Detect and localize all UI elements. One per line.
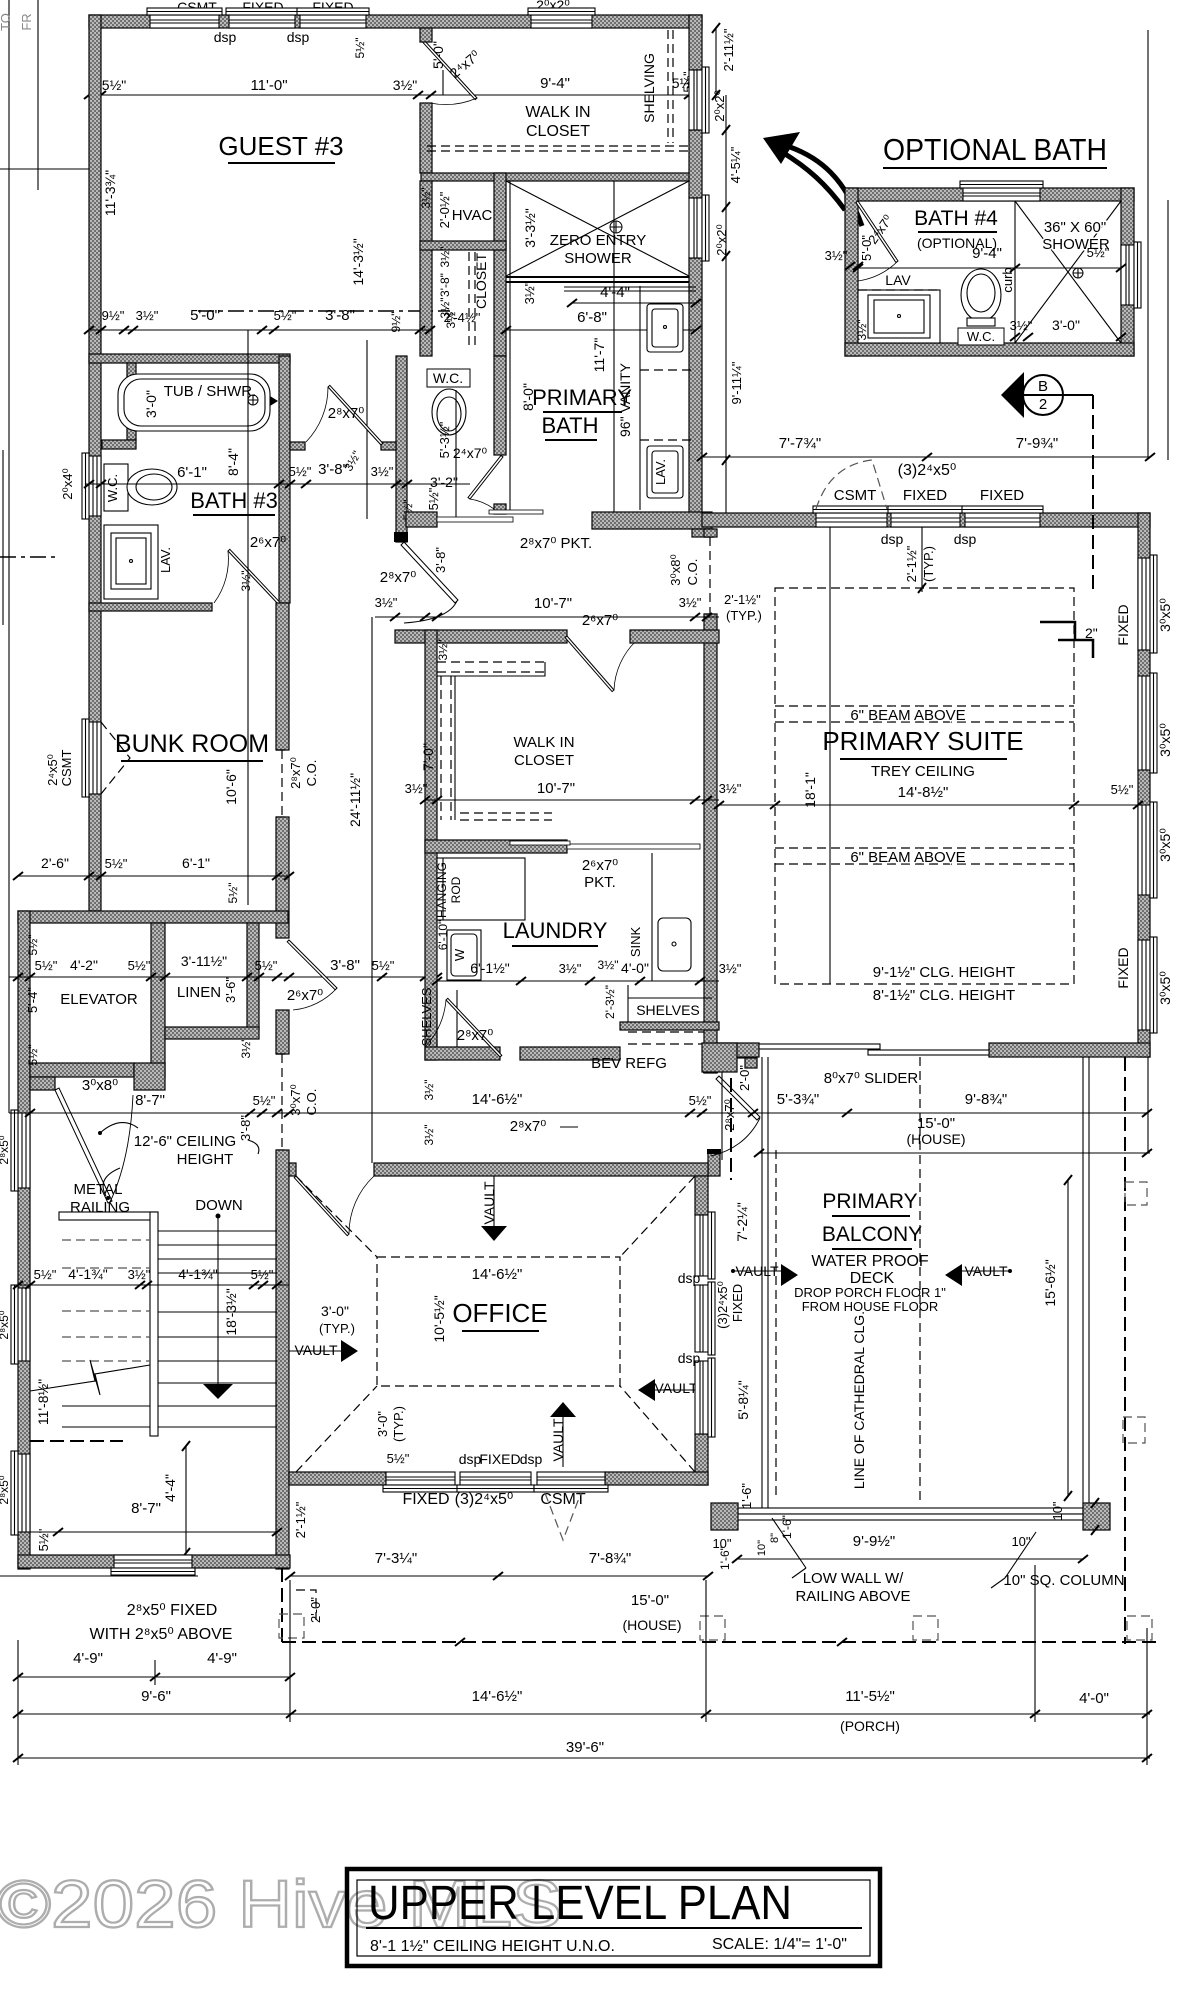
- svg-text:8'-1 1½" CEILING HEIGHT U.N.O.: 8'-1 1½" CEILING HEIGHT U.N.O.: [370, 1938, 615, 1955]
- dim chain y876: [18, 875, 289, 877]
- window 2x2 right wall upper: [689, 67, 709, 133]
- svg-text:3½": 3½": [719, 961, 742, 976]
- wc label box primary bath: [427, 369, 470, 387]
- svg-text:2'-11½": 2'-11½": [721, 28, 736, 71]
- svg-text:3½": 3½": [375, 595, 398, 610]
- closet shelf dashed top: [437, 661, 545, 663]
- wall: elevator block top: [18, 911, 288, 923]
- svg-text:CLOSET: CLOSET: [526, 123, 590, 140]
- svg-text:3⁰x8⁰: 3⁰x8⁰: [668, 554, 683, 585]
- svg-text:CLOSET: CLOSET: [514, 752, 574, 769]
- column left: [711, 1503, 738, 1530]
- svg-text:FIXED: FIXED: [903, 487, 947, 504]
- dim chain y484: [85, 483, 470, 485]
- svg-text:3½": 3½": [422, 1125, 436, 1146]
- svg-text:4'-9": 4'-9": [207, 1650, 237, 1667]
- svg-text:VAULT: VAULT: [294, 1342, 337, 1358]
- svg-text:5½": 5½": [274, 308, 297, 323]
- cased opening 3-0x8-0 C.O. dashed: [704, 537, 717, 614]
- svg-text:(TYP.): (TYP.): [726, 608, 762, 623]
- svg-text:ELEVATOR: ELEVATOR: [60, 991, 138, 1008]
- svg-text:3½": 3½": [559, 961, 582, 976]
- svg-text:3½": 3½": [136, 308, 159, 323]
- stair break line zigzag: [30, 1360, 150, 1395]
- vanity counter edge: [639, 286, 641, 510]
- svg-text:2⁶x7⁰: 2⁶x7⁰: [250, 534, 286, 551]
- svg-text:LAUNDRY: LAUNDRY: [503, 918, 608, 943]
- svg-text:10'-6": 10'-6": [223, 769, 239, 805]
- optional bath top window: [960, 181, 1043, 201]
- svg-text:B: B: [1038, 378, 1048, 395]
- window 2x2 right wall lower: [689, 195, 709, 261]
- svg-text:3½": 3½": [405, 781, 428, 796]
- svg-text:5½": 5½": [128, 958, 151, 973]
- wall: office right top cap: [708, 1151, 720, 1176]
- wall: optional bath top: [845, 188, 1134, 201]
- wall: bunk/hall right x276 mid: [276, 817, 289, 938]
- svg-text:3½": 3½": [436, 640, 450, 661]
- svg-text:FIXED: FIXED: [479, 1451, 520, 1467]
- right margin vertical line x716: [715, 28, 717, 95]
- svg-text:8'-7": 8'-7": [135, 1092, 165, 1109]
- wall: bunk/hall right x276 upper: [276, 603, 289, 750]
- svg-text:3⁰x5⁰: 3⁰x5⁰: [1157, 971, 1173, 1005]
- svg-text:3½": 3½": [825, 248, 848, 263]
- horizontal leader y169 top-left: [0, 168, 89, 170]
- svg-text:5½": 5½": [289, 464, 312, 479]
- svg-text:2'-0½": 2'-0½": [437, 191, 452, 228]
- wall: laundry bottom right / shelves nook: [520, 1047, 620, 1060]
- section marker B/2: [1001, 372, 1024, 418]
- dim 39'-6: [18, 1757, 1150, 1759]
- sill line bottom left: [0, 1575, 198, 1577]
- dashed post square bottom left: [279, 1614, 304, 1638]
- svg-text:6'-1½": 6'-1½": [470, 960, 510, 976]
- wall: office top y1163: [289, 1163, 296, 1176]
- dim 9-11.25 extension: [725, 460, 727, 513]
- svg-text:8'-1½" CLG. HEIGHT: 8'-1½" CLG. HEIGHT: [873, 987, 1015, 1004]
- svg-text:5½": 5½": [102, 77, 126, 93]
- svg-text:5'-3½": 5'-3½": [437, 421, 452, 458]
- right margin vertical line x1148 upper: [1147, 30, 1149, 457]
- door 2-8x7-0 balcony from hall: [716, 1076, 760, 1120]
- wic shelf dashed line bottom: [427, 145, 691, 147]
- dim chain y981 laundry: [437, 980, 719, 982]
- window 2x4 bath#3 in left wall: [82, 453, 101, 519]
- svg-text:FROM HOUSE FLOOR: FROM HOUSE FLOOR: [802, 1299, 939, 1314]
- wall: stair block bottom: [18, 1555, 290, 1568]
- door 2-6x7-0 closet: [565, 636, 636, 692]
- svg-text:4'-5¼": 4'-5¼": [728, 146, 743, 183]
- svg-text:3'-0": 3'-0": [143, 390, 159, 418]
- wall: linen bottom: [165, 1027, 259, 1039]
- section marker leader: [1063, 394, 1093, 396]
- svg-text:3'-8": 3'-8": [238, 1115, 253, 1141]
- right margin vertical line x1168: [1167, 200, 1169, 460]
- svg-text:TREY CEILING: TREY CEILING: [871, 763, 975, 780]
- wall: pocket wall y512 right part: [592, 512, 712, 529]
- washer box: [447, 930, 481, 980]
- svg-text:GUEST #3: GUEST #3: [218, 131, 343, 161]
- svg-text:HVAC: HVAC: [452, 207, 493, 224]
- suite corner block left: [702, 1043, 737, 1072]
- svg-text:3'-8": 3'-8": [330, 957, 360, 974]
- svg-text:2'-1½": 2'-1½": [724, 592, 761, 607]
- wall: primary suite right x1138: [1138, 513, 1150, 1057]
- wall: optional bath left: [845, 188, 858, 356]
- svg-text:dsp: dsp: [881, 531, 904, 547]
- office bottom windows: [383, 1472, 458, 1492]
- wall: hall x276 lower: [276, 1150, 289, 1569]
- svg-text:15'-6½": 15'-6½": [1042, 1259, 1058, 1306]
- svg-text:39'-6": 39'-6": [566, 1739, 604, 1756]
- shower bench double line: [564, 286, 696, 288]
- svg-text:5½": 5½": [1087, 245, 1110, 260]
- svg-text:(3)2⁴x5⁰: (3)2⁴x5⁰: [455, 1491, 514, 1508]
- dashed post square bottom mid1: [700, 1616, 725, 1640]
- vanity bath#3: [104, 525, 158, 599]
- svg-text:6'-1": 6'-1": [182, 855, 210, 871]
- zero entry shower X lines: [506, 181, 689, 276]
- dimension extension line left margin x9: [8, 0, 10, 1113]
- dim chain y977: [9, 976, 437, 978]
- wall stub left of vestibule door: [381, 442, 396, 450]
- wall: exterior left upper: [89, 15, 101, 911]
- svg-text:dsp: dsp: [954, 531, 977, 547]
- lav sink lower with label: [647, 446, 683, 498]
- office vault dashed inner rect: [377, 1257, 620, 1386]
- svg-text:2'-3½": 2'-3½": [603, 985, 617, 1019]
- svg-text:4'-4": 4'-4": [162, 1474, 178, 1502]
- svg-text:4'-4": 4'-4": [600, 284, 630, 301]
- svg-text:8'-4": 8'-4": [225, 448, 241, 476]
- shower X optional bath: [1015, 201, 1121, 343]
- title rule: [366, 1927, 862, 1929]
- dashed post square right 2: [1123, 1417, 1145, 1443]
- svg-text:7'-9¾": 7'-9¾": [1016, 435, 1058, 452]
- svg-text:7'-2¼": 7'-2¼": [734, 1202, 750, 1242]
- svg-text:(TYP.): (TYP.): [921, 546, 936, 582]
- vertical dim line x830 suite: [829, 527, 831, 984]
- svg-text:9'-9½": 9'-9½": [853, 1533, 895, 1550]
- svg-text:3'-2": 3'-2": [430, 474, 458, 490]
- svg-text:dsp: dsp: [214, 29, 237, 45]
- svg-text:18'-3½": 18'-3½": [223, 1288, 239, 1335]
- svg-text:4'-1¾": 4'-1¾": [178, 1266, 218, 1282]
- svg-text:5½": 5½": [36, 1528, 51, 1551]
- closet shelves dashed vertical: [468, 252, 470, 350]
- svg-text:(3)2⁴x5⁰: (3)2⁴x5⁰: [715, 1281, 730, 1329]
- svg-text:2⁸x7⁰ PKT.: 2⁸x7⁰ PKT.: [520, 535, 592, 552]
- svg-text:9'-6": 9'-6": [141, 1688, 171, 1705]
- wall: primary suite top y513: [702, 513, 1150, 527]
- svg-text:5'-8¼": 5'-8¼": [735, 1380, 751, 1420]
- svg-text:6'-1": 6'-1": [177, 464, 207, 481]
- svg-text:14'-6½": 14'-6½": [472, 1688, 523, 1705]
- svg-text:11'-5½": 11'-5½": [845, 1688, 895, 1705]
- svg-text:FR: FR: [19, 13, 34, 30]
- wall: closet/laundry left x425: [425, 630, 437, 1060]
- svg-text:14'-6½": 14'-6½": [472, 1266, 523, 1283]
- svg-text:2⁴x7⁰: 2⁴x7⁰: [453, 445, 488, 461]
- svg-text:2⁰x2⁰: 2⁰x2⁰: [714, 224, 729, 255]
- svg-text:1'-6": 1'-6": [718, 1546, 732, 1570]
- svg-text:2⁴x7⁰: 2⁴x7⁰: [447, 47, 484, 81]
- svg-text:3½": 3½": [855, 320, 869, 341]
- wall: wic bottom / shower top: [421, 173, 699, 181]
- shower drain optional: [1073, 268, 1083, 278]
- svg-text:3½": 3½": [422, 1080, 436, 1101]
- wall: primary suite bottom y1043: [716, 1043, 759, 1057]
- door 2-8x7-0 hall below pocket: [401, 542, 458, 603]
- sink fixture laundry: [658, 918, 691, 971]
- svg-text:(HOUSE): (HOUSE): [622, 1617, 681, 1633]
- svg-text:FIXED: FIXED: [980, 487, 1024, 504]
- svg-text:6" BEAM ABOVE: 6" BEAM ABOVE: [850, 849, 965, 866]
- svg-text:HANGING: HANGING: [435, 862, 449, 918]
- svg-text:8⁰x7⁰ SLIDER: 8⁰x7⁰ SLIDER: [824, 1070, 919, 1087]
- svg-text:BATH: BATH: [541, 413, 598, 438]
- svg-text:7'-7¾": 7'-7¾": [779, 435, 821, 452]
- svg-text:5'-0": 5'-0": [859, 235, 874, 261]
- svg-text:15'-0": 15'-0": [631, 1592, 669, 1609]
- svg-text:3½": 3½": [444, 308, 458, 329]
- window 2x4x5 CSMT bunk in left wall: [82, 719, 101, 797]
- svg-text:OPTIONAL BATH: OPTIONAL BATH: [883, 132, 1107, 167]
- closet shelf dashed bottom: [460, 812, 552, 814]
- svg-text:LAV: LAV: [885, 272, 911, 288]
- svg-text:5½": 5½": [255, 958, 278, 973]
- suite wall corner at x704: [692, 529, 714, 537]
- svg-text:OFFICE: OFFICE: [452, 1298, 547, 1328]
- svg-text:7'-3¼": 7'-3¼": [375, 1550, 417, 1567]
- svg-text:14'-8½": 14'-8½": [898, 784, 949, 801]
- vertical dim line x372: [371, 617, 373, 1163]
- svg-text:3½": 3½": [239, 1038, 253, 1059]
- svg-text:ZERO ENTRY: ZERO ENTRY: [550, 232, 646, 249]
- csmt dashed swing suite: [816, 460, 887, 509]
- big curved arrow: [763, 132, 800, 164]
- toilet primary bath: [432, 389, 466, 435]
- svg-text:W: W: [452, 948, 467, 961]
- svg-text:WALK IN: WALK IN: [513, 734, 574, 751]
- svg-text:W.C.: W.C.: [433, 370, 463, 386]
- svg-text:C.O.: C.O.: [304, 760, 319, 787]
- svg-text:10" SQ. COLUMN: 10" SQ. COLUMN: [1003, 1572, 1124, 1589]
- window 2x2 in top wall: [528, 8, 595, 28]
- svg-text:5½": 5½": [26, 1045, 40, 1066]
- svg-text:(TYP.): (TYP.): [391, 1406, 406, 1442]
- svg-text:9'-8¾": 9'-8¾": [965, 1091, 1007, 1108]
- svg-text:7'-0": 7'-0": [420, 743, 436, 771]
- svg-text:3'-0": 3'-0": [321, 1303, 349, 1319]
- wall: exterior top (guest#3 / walk-in closet): [89, 15, 702, 28]
- door 2-8x7-0 laundry: [425, 998, 502, 1057]
- svg-text:SINK: SINK: [628, 927, 643, 958]
- dim chain y1576 office: [290, 1575, 708, 1577]
- svg-text:1'-6": 1'-6": [780, 1515, 794, 1539]
- svg-text:VAULT: VAULT: [550, 1418, 566, 1461]
- svg-text:dsp: dsp: [678, 1350, 701, 1366]
- wall: hvac bottom: [420, 241, 506, 250]
- wall: laundry SE corner piece: [717, 1046, 757, 1058]
- vertical dim line x248 bath/bunk: [247, 330, 249, 905]
- svg-text:8'-7": 8'-7": [131, 1500, 161, 1517]
- svg-text:2⁶x7⁰: 2⁶x7⁰: [287, 987, 323, 1004]
- wall: exterior left lower (stair block): [18, 911, 30, 1569]
- svg-text:3½": 3½": [598, 958, 619, 972]
- beam dashed band 1: [775, 706, 1074, 722]
- laundry shelves left lines: [437, 990, 457, 1047]
- dim chain y95 guest/wic: [89, 94, 702, 96]
- wall: suite left top stub: [704, 529, 717, 537]
- shelves nook lines: [628, 985, 712, 1022]
- hanging rod closet laundry: [437, 858, 525, 920]
- svg-text:PKT.: PKT.: [584, 874, 616, 891]
- svg-text:5½": 5½": [26, 935, 40, 956]
- svg-text:CSMT: CSMT: [834, 487, 877, 504]
- svg-text:5½": 5½": [253, 1093, 276, 1108]
- svg-text:SHELVING: SHELVING: [641, 53, 657, 123]
- wall: linen right x247: [247, 923, 259, 1030]
- window 2-8x5 left wall 2: [11, 1285, 30, 1364]
- dim chain y1113 balcony: [719, 1112, 1147, 1114]
- cased opening 3-0x7-0 C.O. hall: [276, 1054, 289, 1150]
- svg-text:5'-0": 5'-0": [190, 307, 220, 324]
- wall: closet top right part: [630, 630, 719, 643]
- svg-text:4'-2": 4'-2": [70, 957, 98, 973]
- svg-text:SCALE: 1/4"= 1'-0": SCALE: 1/4"= 1'-0": [712, 1936, 847, 1953]
- svg-text:2⁸x7⁰: 2⁸x7⁰: [457, 1027, 494, 1044]
- svg-text:11'-7": 11'-7": [591, 338, 607, 373]
- wall: bath#3 bottom / bunk top: [89, 603, 212, 611]
- door 2-8x7-0 office: [294, 1176, 374, 1236]
- porch dash-dot horizontal y1642: [282, 1641, 1160, 1643]
- wall: office bottom y1472: [289, 1472, 386, 1485]
- svg-text:5½": 5½": [226, 883, 240, 904]
- svg-text:LOW WALL W/: LOW WALL W/: [803, 1570, 904, 1587]
- svg-text:WALK IN: WALK IN: [525, 104, 590, 121]
- svg-text:10'-7": 10'-7": [534, 595, 572, 612]
- svg-text:BEV REFG: BEV REFG: [591, 1055, 667, 1072]
- svg-text:10'-7": 10'-7": [537, 780, 575, 797]
- wall: optional bath right: [1121, 188, 1134, 356]
- wall: tub niche divider: [127, 363, 136, 440]
- tub faucet: [248, 395, 258, 405]
- svg-text:BATH #3: BATH #3: [190, 488, 278, 513]
- svg-text:SHOWER: SHOWER: [564, 250, 632, 267]
- svg-text:5'-3¾": 5'-3¾": [777, 1091, 819, 1108]
- svg-text:1'-6": 1'-6": [739, 1483, 754, 1509]
- svg-text:3'-6": 3'-6": [223, 977, 238, 1003]
- svg-text:C.O.: C.O.: [304, 1089, 319, 1116]
- left margin line x3: [2, 450, 4, 625]
- toilet optional bath: [961, 269, 1001, 326]
- svg-text:12'-6" CEILING: 12'-6" CEILING: [134, 1133, 236, 1150]
- svg-text:TO: TO: [0, 13, 13, 31]
- svg-text:PRIMARY SUITE: PRIMARY SUITE: [822, 726, 1023, 756]
- wall stub below tub niche: [102, 440, 136, 449]
- svg-text:5½": 5½": [689, 1093, 712, 1108]
- down arrow head: [203, 1384, 233, 1399]
- svg-text:3'-3½": 3'-3½": [522, 208, 538, 248]
- vanity dashed dividers: [640, 369, 691, 371]
- svg-text:BUNK ROOM: BUNK ROOM: [115, 730, 269, 758]
- svg-text:PRIMARY: PRIMARY: [532, 385, 632, 410]
- svg-text:WITH 2⁸x5⁰ ABOVE: WITH 2⁸x5⁰ ABOVE: [90, 1626, 233, 1643]
- wall: elevator right x151: [151, 923, 165, 1077]
- svg-text:2'-0": 2'-0": [737, 1065, 752, 1091]
- porch dashed right vertical x1125: [1124, 1057, 1126, 1644]
- down arrow line: [217, 1216, 219, 1384]
- wall: shelves nook top: [620, 1022, 719, 1030]
- wall: vestibule right x396: [396, 356, 407, 542]
- beam dashed band 2: [775, 848, 1074, 864]
- svg-text:2'-1½": 2'-1½": [904, 545, 919, 582]
- elevator bottom wall corner piece: [134, 1063, 165, 1090]
- svg-text:2⁸x7⁰: 2⁸x7⁰: [380, 569, 417, 586]
- svg-text:3'-11½": 3'-11½": [181, 953, 227, 969]
- svg-text:9'-4": 9'-4": [972, 245, 1002, 262]
- svg-text:dsp: dsp: [678, 1270, 701, 1286]
- svg-text:FIXED: FIXED: [1115, 947, 1131, 988]
- wall: bath#3 right x279: [279, 356, 290, 603]
- wall: laundry top y840: [425, 840, 567, 853]
- closet shelf dashed left: [440, 676, 442, 820]
- wall: closet top y630: [395, 630, 567, 643]
- stair treads lower right flight: [158, 1312, 277, 1427]
- stair treads upper right flight: [158, 1231, 277, 1273]
- svg-text:DROP PORCH FLOOR 1": DROP PORCH FLOOR 1": [794, 1285, 946, 1300]
- wall: office right x695: [695, 1176, 708, 1215]
- right dim vertical line x1068: [1067, 1180, 1069, 1496]
- wall: guest bottom / bath#3 top: [89, 354, 290, 363]
- svg-text:WATER PROOF: WATER PROOF: [811, 1253, 929, 1270]
- dim chain y1714: [18, 1713, 1150, 1715]
- svg-text:LINE OF CATHEDRAL CLG.: LINE OF CATHEDRAL CLG.: [851, 1311, 867, 1489]
- wall: hvac-closet left x420: [420, 181, 432, 356]
- svg-text:5½": 5½": [251, 1267, 274, 1282]
- svg-text:14'-6½": 14'-6½": [472, 1091, 523, 1108]
- svg-text:VAULT: VAULT: [654, 1380, 697, 1396]
- svg-text:W.C.: W.C.: [105, 474, 120, 502]
- dim chain y1113 hall: [9, 1112, 290, 1114]
- svg-text:2'-6": 2'-6": [41, 855, 69, 871]
- svg-text:11'-3¾": 11'-3¾": [102, 170, 118, 216]
- svg-text:2⁸x5⁰ FIXED: 2⁸x5⁰ FIXED: [127, 1602, 218, 1619]
- svg-text:2⁰x2⁰: 2⁰x2⁰: [712, 90, 727, 121]
- svg-text:(PORCH): (PORCH): [840, 1718, 900, 1734]
- svg-text:10": 10": [1050, 1501, 1065, 1520]
- heavy dashed floor edge: [30, 1440, 123, 1442]
- office right windows: [695, 1212, 715, 1279]
- dim chain y1677 4-9 4-9: [18, 1676, 290, 1678]
- svg-text:(HOUSE): (HOUSE): [906, 1131, 965, 1147]
- svg-text:PRIMARY: PRIMARY: [822, 1190, 917, 1213]
- wc label optional bath: [958, 328, 1004, 345]
- shower curb double line: [506, 276, 689, 278]
- extension verticals bottom: [17, 1640, 19, 1765]
- dim extension vertical x614: [613, 181, 615, 514]
- dashed post square bottom right: [1127, 1616, 1152, 1640]
- dim extension vertical x510: [509, 181, 511, 514]
- wall: laundry bottom y1047: [425, 1047, 500, 1060]
- right margin vertical line x726 ticks: [725, 95, 727, 460]
- svg-text:6'-10": 6'-10": [436, 920, 450, 951]
- svg-text:2⁰x4⁰: 2⁰x4⁰: [60, 468, 75, 499]
- lav sink upper: [647, 304, 683, 352]
- svg-text:3'-8": 3'-8": [325, 307, 355, 324]
